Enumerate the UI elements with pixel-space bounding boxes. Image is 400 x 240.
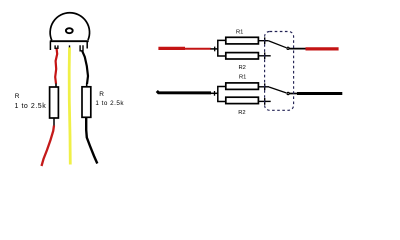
svg-text:R2: R2: [239, 65, 246, 71]
resistor R2 (red pair): [226, 53, 259, 59]
contact tick R1 (red pair): [264, 37, 266, 44]
yellow wire: [69, 47, 70, 164]
contact tick R1 (black pair): [264, 83, 266, 90]
svg-text:R1: R1: [236, 29, 243, 35]
svg-text:R: R: [15, 93, 20, 100]
svg-text:R1: R1: [239, 75, 246, 81]
black input wire: [157, 91, 211, 93]
contact tick R2 (black pair): [264, 98, 266, 105]
svg-text:R: R: [99, 91, 104, 98]
resistor lead top left: [55, 84, 57, 88]
black wire upper: [82, 51, 88, 85]
switch blade (black channel): [269, 87, 286, 93]
potentiometer body: [50, 13, 90, 50]
switch blade (red channel): [269, 41, 287, 48]
pin 3: [80, 45, 83, 51]
resistor R (right, black wire): [82, 87, 91, 118]
resistor R1 (black pair): [226, 83, 259, 90]
black wire tail: [86, 117, 97, 163]
switch pole circle (black channel): [287, 92, 289, 94]
red output wire: [306, 47, 339, 50]
switch selector dashed box: [265, 32, 294, 111]
black output wire: [289, 93, 299, 95]
junction tick (black side): [211, 92, 218, 94]
pin 1: [55, 45, 58, 48]
stub R2 right (black pair): [258, 100, 270, 102]
resistor R (left, red wire): [50, 87, 59, 118]
pin 2: [69, 45, 71, 47]
potentiometer shaft hole: [66, 28, 73, 33]
contact tick R2 (red pair): [264, 52, 266, 59]
svg-text:1 to 2.5k: 1 to 2.5k: [95, 100, 124, 107]
branch bracket (red pair): [218, 40, 226, 56]
resistor lead top right: [86, 84, 88, 88]
red wire upper: [55, 49, 57, 84]
resistor R2 (black pair): [226, 97, 259, 103]
switch pole circle (red channel): [287, 47, 289, 49]
stub R2 right (red pair): [258, 55, 270, 57]
stub R1 right (red pair): [258, 40, 268, 42]
svg-text:1 to 2.5k: 1 to 2.5k: [15, 103, 47, 110]
branch bracket (black pair): [218, 87, 226, 102]
stub R1 right (black pair): [258, 86, 269, 88]
junction tick (red side): [211, 48, 218, 50]
resistor lead bottom left: [53, 118, 55, 126]
red input wire: [158, 47, 185, 50]
svg-text:R2: R2: [238, 110, 245, 116]
resistor R1 (red pair): [226, 37, 259, 44]
pole stub (red channel): [289, 48, 306, 50]
red wire tail: [42, 126, 55, 167]
